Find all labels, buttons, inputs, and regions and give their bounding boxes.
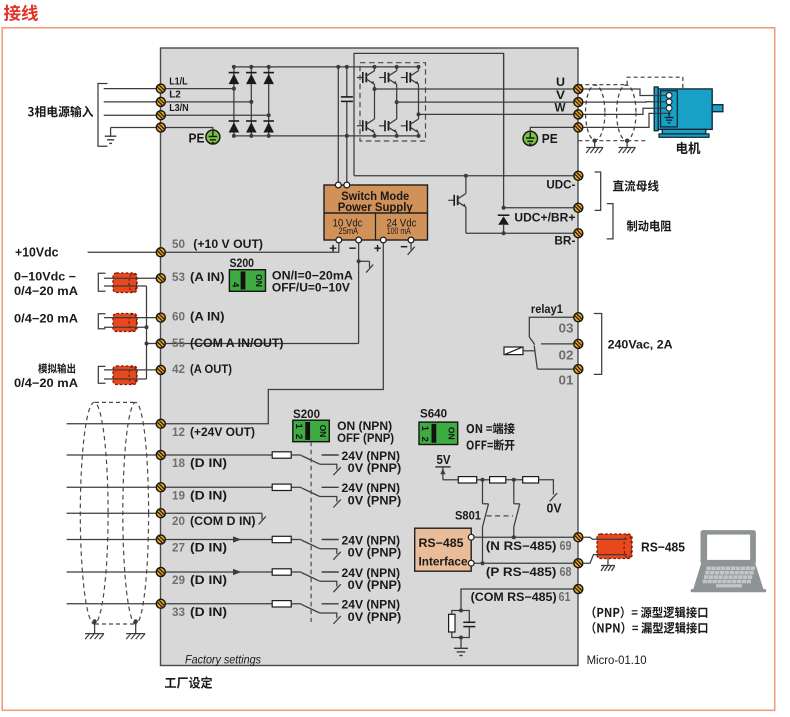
wire AI1 signal [104, 277, 156, 279]
IGBT Q3 top [401, 71, 419, 85]
terminal 02 [574, 339, 583, 348]
terminal 12 [156, 419, 165, 428]
wire 55 stub [147, 343, 157, 345]
svg-text:U: U [556, 75, 565, 89]
wire 10Vdc- down [358, 242, 360, 344]
wire 29 external [67, 571, 157, 573]
digital cable ellipse 2 [123, 402, 149, 624]
svg-text:RS−485: RS−485 [641, 539, 685, 554]
svg-text:33: 33 [172, 605, 185, 619]
node UDC+ junction [502, 206, 506, 210]
wire cap branch lower [346, 101, 348, 185]
terminal W [574, 110, 583, 119]
wire PE to motor [583, 113, 668, 127]
svg-text:relay1: relay1 [531, 302, 563, 316]
node S801 to P [481, 561, 485, 565]
switch arm 18 [301, 456, 319, 465]
wire 68 to ferrite [583, 555, 598, 564]
wire IGBT bottom emitter W [418, 133, 420, 136]
svg-text:Factory settings: Factory settings [185, 655, 261, 667]
terminal BR- [574, 229, 583, 238]
svg-text:(P RS−485): (P RS−485) [486, 565, 557, 579]
wire in ferrite top [598, 538, 627, 540]
node term 1 [481, 478, 485, 482]
contact slash 33 [333, 616, 340, 624]
input ground [105, 136, 117, 143]
svg-text:(D IN): (D IN) [190, 456, 227, 470]
wire 5V to R1 [443, 479, 458, 481]
terminal PE output [574, 123, 583, 132]
wire 20 internal [166, 512, 263, 514]
node 10Vdc- junction [357, 259, 361, 263]
resistor 19 [272, 484, 291, 490]
wire 69 to ferrite [583, 537, 598, 539]
wire phase column V [396, 84, 398, 119]
node phase tap 1 [232, 87, 236, 91]
input earth stub [110, 128, 112, 136]
DC bus bracket [595, 172, 601, 210]
interface pin P [468, 560, 474, 566]
wire V [397, 101, 574, 103]
terminal PE input [156, 123, 165, 132]
node cable shield 2 [134, 619, 138, 623]
S200 dashed link [310, 442, 312, 622]
diode D3 top [263, 73, 274, 84]
switch arm 27 [301, 540, 319, 549]
wire in ferrite bottom [598, 554, 627, 556]
wire 27 internal [166, 539, 273, 541]
wire AO return [104, 378, 147, 380]
PE symbol left [206, 130, 220, 144]
contact dash 18 [322, 454, 339, 456]
node cap branch top [345, 65, 349, 69]
analog bracket 3 [98, 366, 105, 383]
RS485 ground stub [607, 559, 609, 566]
node diode anode [502, 231, 506, 235]
node phase tap 2 [249, 100, 253, 104]
wire U [375, 88, 574, 90]
motor cable shield ellipse 1 [586, 85, 605, 140]
node phase W [417, 112, 421, 116]
node top bus 1 [232, 65, 236, 69]
svg-text:1: 1 [419, 426, 430, 432]
terminal 20 [156, 509, 165, 518]
ferrite ring AI2 [113, 314, 137, 332]
svg-text:ON: ON [254, 274, 264, 287]
contact dash 27 [322, 539, 339, 541]
wire IGBT top collector W [418, 67, 420, 71]
digital cable ellipse 1 [80, 402, 108, 624]
ferrite ring AI1 [113, 273, 137, 293]
svg-text:+: + [374, 241, 382, 256]
terminal U [574, 85, 583, 94]
wire L3 to bridge [166, 114, 269, 116]
wire 33 internal [166, 603, 273, 605]
analog bracket 2 [98, 314, 105, 329]
brake chopper IGBT Q7 [448, 194, 466, 208]
RC ground stub [460, 638, 462, 649]
S801 switch chain 2 [514, 480, 520, 537]
bridge column 3 wire [268, 67, 270, 136]
laptop computer [691, 531, 767, 593]
wire L1 input [104, 88, 157, 90]
terminal 55 [156, 339, 165, 348]
wire 33 external [67, 603, 157, 605]
svg-text:S640: S640 [420, 409, 447, 421]
interface pin N [468, 534, 474, 540]
arrow 27 [233, 536, 242, 542]
cable ground stub 1 [94, 622, 96, 634]
bridge column 1 wire [233, 67, 235, 136]
svg-text:Interface: Interface [419, 555, 468, 569]
cable ground stub 2 [135, 622, 137, 634]
terminal 27 [156, 535, 165, 544]
node RC bottom [459, 636, 463, 640]
svg-text:BR-: BR- [554, 236, 575, 248]
wire PE internal [166, 128, 213, 131]
shield ground 1 [586, 148, 603, 154]
wire 33 to switch [291, 603, 301, 605]
S801 switch chain 1 [483, 480, 489, 563]
wire W to motor [583, 108, 666, 114]
terminal V [574, 98, 583, 107]
svg-text:0V (PNP): 0V (PNP) [348, 546, 402, 560]
svg-text:UDC+/BR+: UDC+/BR+ [514, 212, 575, 224]
wire BR- [466, 232, 574, 234]
RC ground [454, 648, 468, 655]
node inverter bottom V [395, 134, 399, 138]
svg-text:0V: 0V [547, 502, 563, 516]
svg-text:ON: ON [446, 427, 456, 440]
terminal L2 [156, 97, 165, 106]
label 工厂设定 [165, 677, 212, 689]
svg-text:0/4−20 mA: 0/4−20 mA [14, 312, 78, 326]
svg-text:100 mA: 100 mA [387, 226, 411, 236]
svg-text:25mA: 25mA [339, 226, 359, 236]
terminal 61 [574, 585, 583, 594]
ferrite ring AO [113, 366, 137, 385]
label PNP note [593, 606, 708, 618]
svg-text:(COM A IN/OUT): (COM A IN/OUT) [190, 336, 284, 350]
SMPS output pin [356, 237, 362, 243]
svg-text:69: 69 [560, 539, 572, 553]
DIP switch S640 [419, 422, 458, 444]
capacitor C1 plate1 [341, 96, 353, 98]
svg-text:S200: S200 [293, 409, 320, 421]
wire chopper collector [465, 176, 467, 194]
SMPS input pin [335, 182, 341, 188]
terminal 50 [156, 248, 165, 257]
IGBT Q6 bottom [401, 119, 419, 133]
node cable shield 1 [92, 619, 96, 623]
svg-text:55: 55 [172, 336, 185, 350]
inverter dashed box [360, 63, 426, 141]
wire L2 input [104, 101, 157, 103]
svg-text:−: − [400, 239, 408, 254]
wire L3 input [104, 114, 157, 116]
svg-text:0V (PNP): 0V (PNP) [348, 610, 402, 624]
wire IGBT top collector V [396, 67, 398, 71]
wire COM to 55 [166, 343, 359, 345]
label 电机 [677, 142, 701, 154]
wire relay 03 [529, 317, 574, 337]
switch arm 29 [301, 573, 319, 582]
wire 29 internal [166, 571, 273, 573]
label 制动电阻 [627, 220, 672, 232]
node inverter top V [395, 65, 399, 69]
wire chopper emitter to BR- [465, 207, 467, 233]
IGBT Q5 bottom [379, 119, 397, 133]
node top bus 2 [249, 65, 253, 69]
terminal 19 [156, 483, 165, 492]
wire R3 to 0V [539, 480, 554, 495]
terminal L1/L [156, 84, 165, 93]
wire PE input [111, 127, 157, 129]
svg-text:18: 18 [172, 456, 185, 470]
node bottom bus 2 [249, 134, 253, 138]
node phase V [395, 100, 399, 104]
resistor R3 termination [523, 477, 539, 483]
IGBT Q4 bottom [357, 119, 375, 133]
contact slash 18 [333, 467, 340, 475]
wire 19 PNP branch [320, 497, 337, 502]
svg-text:2: 2 [293, 434, 304, 439]
SMPS input pin [344, 182, 350, 188]
shield ground stub 1 [594, 141, 596, 148]
wire 24Vdc+ to 12 [166, 242, 384, 424]
svg-text:03: 03 [559, 321, 574, 336]
jumper hook 10Vdc- [359, 261, 374, 272]
wire R1 to R2 [477, 479, 490, 481]
diode D1 top [229, 73, 240, 84]
PE symbol right [523, 131, 537, 145]
relay contact 03 tail [529, 337, 535, 345]
wire 18 PNP branch [320, 464, 337, 469]
svg-text:20: 20 [172, 514, 185, 528]
wire R2 to R3 [506, 479, 523, 481]
svg-text:4: 4 [230, 282, 241, 288]
terminal 33 [156, 599, 165, 608]
node inverter top W [417, 65, 421, 69]
resistor R2 termination [490, 477, 506, 483]
svg-text:29: 29 [172, 573, 185, 587]
svg-text:+10Vdc: +10Vdc [15, 246, 59, 260]
node phase tap 3 [267, 113, 271, 117]
node inverter bottom U [373, 134, 377, 138]
node top bus 3 [267, 65, 271, 69]
hook 20 [259, 513, 266, 524]
terminal UDC- [574, 171, 583, 180]
terminal UDC+/BR+ [574, 203, 583, 212]
switch arm 33 [301, 604, 319, 613]
svg-text:S801: S801 [455, 510, 482, 522]
wire 18 external [67, 454, 157, 456]
wire 12 external [67, 423, 157, 425]
switch mode power supply U10 [324, 185, 428, 240]
RS-485 interface block [415, 528, 472, 571]
svg-text:PE: PE [542, 131, 558, 146]
diode D2 top [246, 73, 256, 84]
svg-text:(D IN): (D IN) [190, 541, 227, 555]
terminal 29 [156, 568, 165, 577]
shield ground stub 2 [626, 141, 628, 148]
diode D6 bottom [263, 121, 274, 132]
wire 19 to switch [291, 486, 301, 488]
wire cap branch upper [346, 67, 348, 97]
node phase U [373, 87, 377, 91]
label 3相电源输入 [28, 106, 93, 118]
contact slash 27 [333, 552, 340, 560]
terminal 01 [574, 365, 583, 374]
svg-text:53: 53 [172, 270, 185, 284]
node S801 to N [512, 535, 516, 539]
wire 29 PNP branch [320, 581, 337, 586]
S801 gang dashed [487, 515, 514, 517]
inverter module box [354, 53, 504, 175]
svg-text:02: 02 [559, 347, 574, 362]
svg-text:50: 50 [172, 237, 185, 251]
digital cable bottom dashed [95, 623, 135, 625]
svg-text:0−10Vdc −: 0−10Vdc − [14, 269, 76, 283]
terminal 03 [574, 313, 583, 322]
wire AI2 return [104, 326, 147, 328]
svg-text:60: 60 [172, 310, 185, 324]
terminal 68 [574, 559, 583, 568]
shield bond dashed to motor [627, 77, 683, 88]
svg-text:(A IN): (A IN) [190, 310, 225, 324]
svg-text:(+24V OUT): (+24V OUT) [190, 425, 255, 439]
arrow 29 [233, 569, 242, 575]
wire W [419, 113, 574, 115]
svg-text:(D IN): (D IN) [190, 573, 227, 587]
wire DC+ to UDC+ [503, 53, 505, 207]
wire 33 PNP branch [320, 613, 337, 618]
terminal 60 [156, 313, 165, 322]
terminal L3/N [156, 111, 165, 120]
svg-text:PE: PE [189, 131, 205, 146]
cable ground 1 [85, 634, 104, 640]
wire IGBT bottom emitter U [374, 133, 376, 136]
svg-text:(A OUT): (A OUT) [190, 362, 232, 376]
drive enclosure box [161, 48, 579, 666]
wire AI2 signal [104, 317, 156, 319]
svg-text:S200: S200 [230, 258, 255, 270]
svg-text:+: + [329, 241, 337, 256]
terminal 69 [574, 533, 583, 542]
relay coil K1 [504, 347, 535, 355]
resistor 29 [272, 569, 291, 575]
svg-text:(D IN): (D IN) [190, 605, 227, 619]
wire 10Vdc+ to 50 [166, 242, 339, 252]
5V supply symbol [435, 467, 450, 480]
svg-text:L2: L2 [169, 89, 181, 101]
resistor 33 [272, 601, 291, 607]
wire phase column U [374, 84, 376, 119]
svg-text:0/4−20 mA: 0/4−20 mA [14, 284, 78, 298]
wire P RS-485 [474, 562, 574, 564]
svg-text:OFF (PNP): OFF (PNP) [337, 431, 394, 445]
terminal 18 [156, 451, 165, 460]
node shield ground 2 [625, 139, 629, 143]
motor cable shield top dashed [578, 84, 627, 86]
wire phase column W [418, 84, 420, 119]
resistor R1 termination [458, 477, 476, 483]
node term 2 [512, 478, 516, 482]
wire COM RS-485 [461, 589, 574, 611]
node analog common [145, 342, 149, 346]
svg-text:(D IN): (D IN) [190, 488, 227, 502]
RS485 ground [601, 566, 615, 572]
svg-text:1: 1 [293, 424, 304, 430]
DC+ top bus [234, 66, 419, 68]
title 接线 [4, 5, 38, 22]
motor cable shield bottom dashed [578, 140, 648, 142]
RC filter network [449, 611, 476, 638]
svg-text:UDC-: UDC- [546, 180, 575, 192]
svg-text:27: 27 [172, 541, 185, 555]
analog bracket 1 [98, 273, 105, 291]
wire AO signal [104, 369, 156, 371]
terminal 53 [156, 274, 165, 283]
node bottom bus 3 [267, 134, 271, 138]
svg-text:01: 01 [559, 373, 574, 388]
svg-text:(COM RS−485): (COM RS−485) [471, 590, 557, 604]
diode D5 bottom [246, 121, 256, 132]
wire U to motor [583, 89, 666, 96]
label OFF=断开 [467, 439, 515, 451]
label 直流母线 [613, 180, 659, 192]
wire 20 external [67, 512, 157, 514]
motor M1 [654, 87, 723, 137]
wire 27 external [67, 539, 157, 541]
contact slash 0V [550, 493, 558, 501]
svg-text:5V: 5V [437, 453, 452, 467]
wire DC+ drop to SMPS [337, 67, 339, 185]
wire N RS-485 [474, 536, 574, 538]
jumper hook 24Vdc- [408, 244, 415, 255]
wire V to motor [583, 101, 666, 103]
node bottom bus 1 [232, 134, 236, 138]
brake diode D7 [498, 215, 510, 233]
svg-text:W: W [555, 100, 567, 114]
wire 18 to switch [291, 454, 301, 456]
node inverter bottom W [417, 134, 421, 138]
svg-text:0V (PNP): 0V (PNP) [348, 461, 402, 475]
wire 29 to switch [291, 571, 301, 573]
svg-text:ON: ON [318, 425, 328, 438]
node chopper top [464, 174, 468, 178]
node shield ground 1 [593, 139, 597, 143]
resistor 27 [272, 536, 291, 542]
wire AI1 return [104, 285, 147, 287]
node RC top [459, 609, 463, 613]
wire L2 to bridge [166, 101, 252, 103]
label ON=端接 [467, 423, 515, 434]
contact slash 29 [333, 584, 340, 592]
wire 18 internal [166, 454, 273, 456]
svg-text:0V (PNP): 0V (PNP) [348, 578, 402, 592]
wire relay 02 [541, 343, 574, 345]
wire IGBT top collector U [374, 67, 376, 71]
motor cable shield ellipse 2 [617, 85, 636, 140]
svg-text:Power Supply: Power Supply [338, 202, 414, 214]
node AI2 return [145, 325, 149, 329]
DC- bottom bus [234, 135, 419, 137]
wire +10Vdc [88, 251, 157, 253]
svg-text:−: − [349, 241, 357, 256]
svg-text:12: 12 [172, 425, 185, 439]
wire 19 external [67, 486, 157, 488]
